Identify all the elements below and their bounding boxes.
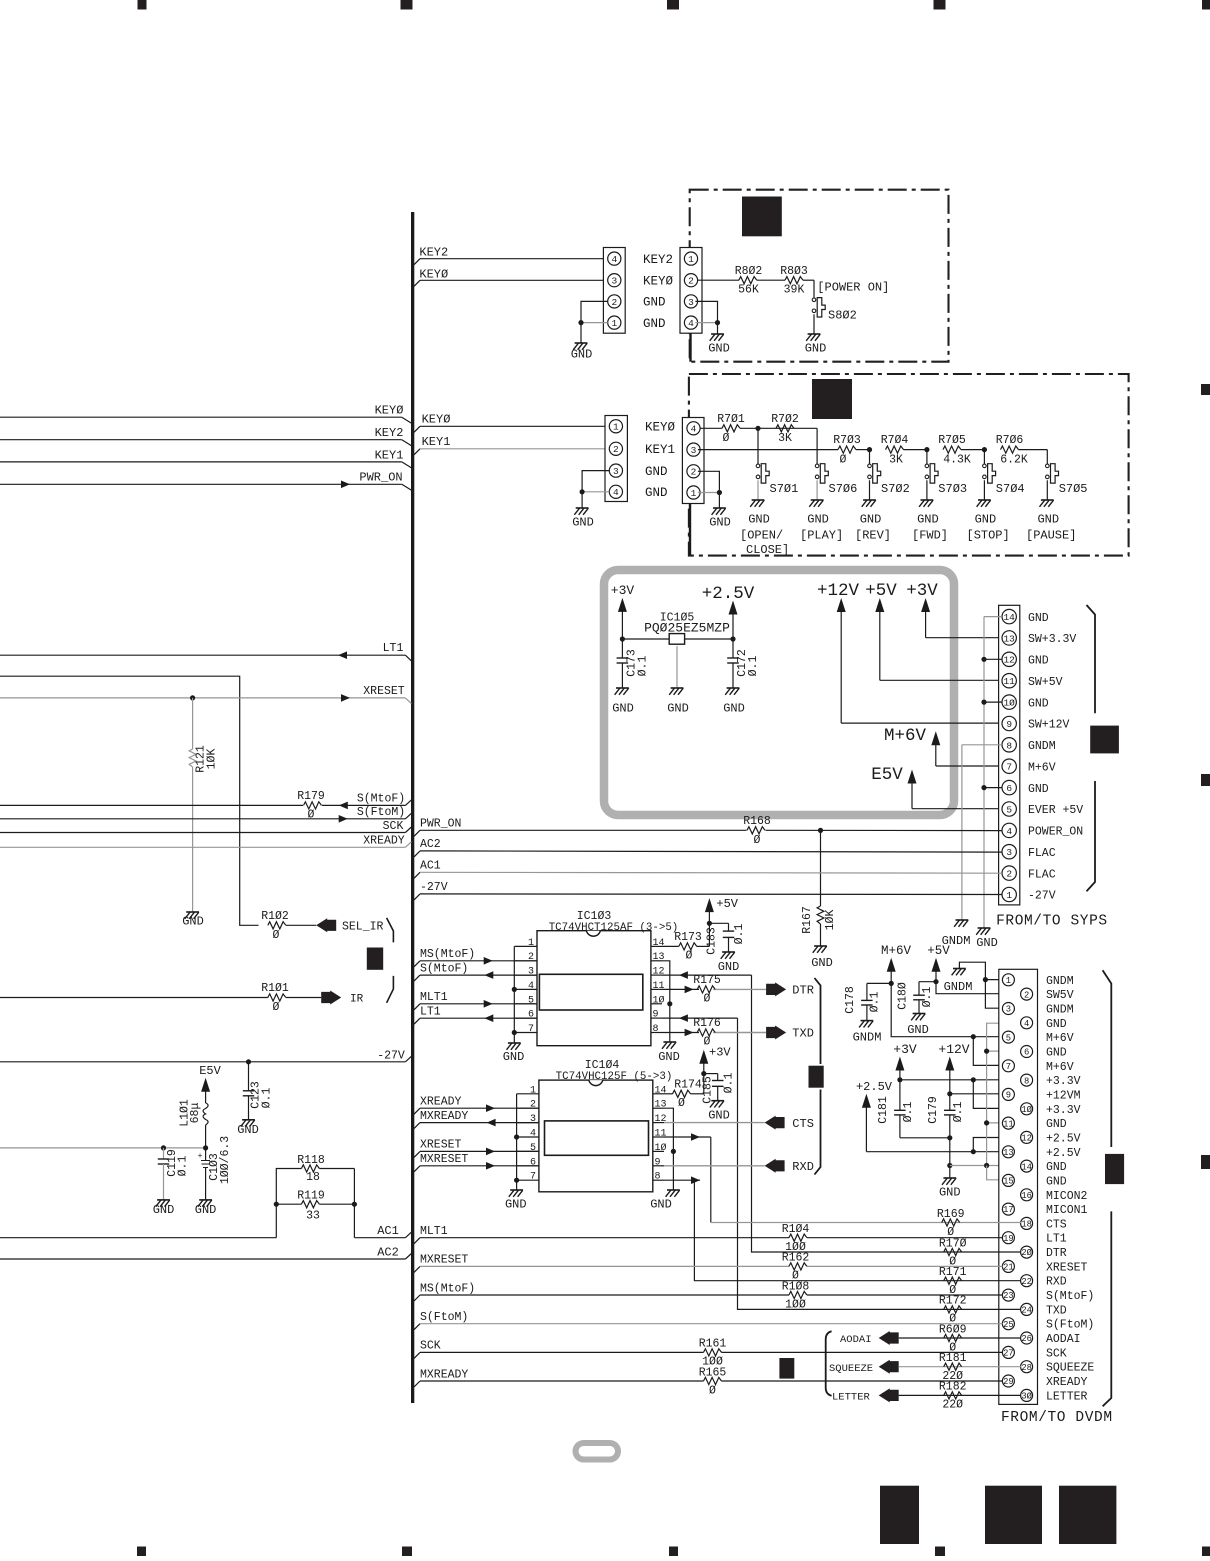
capacitor C178 0.1 xyxy=(844,983,891,1020)
capacitor C185 0.1 xyxy=(701,1073,735,1104)
svg-text:KEY1: KEY1 xyxy=(645,443,675,457)
svg-text:R7Ø2: R7Ø2 xyxy=(771,413,799,426)
svg-text:5: 5 xyxy=(530,1143,536,1154)
svg-text:XREADY: XREADY xyxy=(363,835,405,848)
wire DVDM GND rail (pins 4,6,11,14,15) xyxy=(950,1023,1021,1180)
net SEL_IR xyxy=(316,918,383,933)
svg-text:+3.3V: +3.3V xyxy=(1046,1075,1081,1088)
wire PWR_ON to R167 xyxy=(820,830,822,906)
svg-text:R168: R168 xyxy=(743,815,771,828)
power rail +3V (DVDM) xyxy=(893,1042,1021,1108)
wire SYPS GND bus (pins 14,12,10,6) xyxy=(981,617,1002,928)
svg-text:+3V: +3V xyxy=(611,583,635,598)
net MLT1 to IC103.5 xyxy=(414,991,537,1010)
switch S703 xyxy=(925,464,967,496)
svg-text:CLOSE]: CLOSE] xyxy=(746,543,789,557)
svg-text:9: 9 xyxy=(1006,1091,1011,1101)
svg-text:S(FtoM): S(FtoM) xyxy=(357,806,405,819)
wire IC103 pins 1,4,7 ground rail xyxy=(512,946,517,1043)
wire CN702 pin1 column to panel border xyxy=(689,504,691,556)
wire CN802 pin3/pin4 to ground xyxy=(695,301,720,334)
svg-text:GND: GND xyxy=(1046,1047,1067,1060)
svg-text:[PAUSE]: [PAUSE] xyxy=(1026,529,1076,543)
svg-text:8: 8 xyxy=(1024,1076,1029,1086)
wire IC104.11 to R169 line xyxy=(664,1133,934,1222)
wire main bus xyxy=(411,212,414,1403)
svg-text:29: 29 xyxy=(1003,1377,1014,1387)
svg-text:FLAC: FLAC xyxy=(1028,847,1056,860)
IC103 pin 14 xyxy=(651,938,665,949)
net SCK (left edge) xyxy=(0,820,411,833)
svg-text:R118: R118 xyxy=(297,1154,325,1167)
svg-text:56K: 56K xyxy=(738,284,759,297)
resistor R165 0 xyxy=(699,1366,727,1397)
svg-text:S(MtoF): S(MtoF) xyxy=(420,962,468,975)
svg-text:DTR: DTR xyxy=(792,984,814,998)
svg-text:GND: GND xyxy=(572,516,594,530)
svg-text:GND: GND xyxy=(571,348,593,362)
svg-text:SCK: SCK xyxy=(420,1340,441,1353)
svg-text:6: 6 xyxy=(530,1157,536,1168)
IC104 pin 1 xyxy=(517,1085,539,1096)
svg-text:FROM/TO SYPS: FROM/TO SYPS xyxy=(996,914,1108,930)
svg-text:4.3K: 4.3K xyxy=(943,453,971,466)
power rail +3V to SW+3.3V xyxy=(906,581,1002,638)
IC104 pin 4 xyxy=(517,1129,539,1140)
net XREADY to IC104.2 xyxy=(414,1095,539,1114)
wire S705 to ground xyxy=(1046,480,1048,500)
svg-text:MLT1: MLT1 xyxy=(420,1225,448,1238)
svg-text:11: 11 xyxy=(1003,676,1015,687)
svg-text:15: 15 xyxy=(1003,1177,1014,1187)
svg-text:11: 11 xyxy=(653,981,665,992)
ground GND (IC103 right) xyxy=(658,1042,680,1064)
ground GND (R121) xyxy=(182,912,204,929)
black label box xyxy=(742,197,782,237)
svg-text:S(MtoF): S(MtoF) xyxy=(1046,1290,1094,1303)
ground GND (IC104 right) xyxy=(650,1190,680,1212)
svg-text:+12V: +12V xyxy=(817,581,860,601)
wire S702 to ground xyxy=(869,480,871,500)
svg-text:17: 17 xyxy=(1003,1205,1014,1215)
svg-text:7: 7 xyxy=(530,1172,536,1183)
svg-text:[POWER ON]: [POWER ON] xyxy=(817,281,889,295)
resistor R609 0 xyxy=(934,1323,1021,1354)
svg-text:14: 14 xyxy=(655,1085,667,1096)
net MLT1 to R104/pin19 xyxy=(414,1225,1003,1244)
wire KEY0 net in panel1 xyxy=(698,279,740,281)
svg-text:GND: GND xyxy=(503,1050,525,1064)
harness bracket (DVDM upper) xyxy=(1103,970,1112,1147)
svg-text:R165: R165 xyxy=(699,1366,727,1379)
connector CN802 (key unit side B) xyxy=(680,248,702,334)
IC103 pin 9 xyxy=(651,1010,662,1021)
svg-text:GND: GND xyxy=(917,513,939,527)
net MXREADY to IC104.3 xyxy=(414,1110,539,1129)
svg-text:S7Ø5: S7Ø5 xyxy=(1059,482,1088,496)
wire IC103 pins 13,10 ground rail xyxy=(662,961,672,1042)
svg-text:24: 24 xyxy=(1021,1306,1032,1316)
svg-text:Ø: Ø xyxy=(308,809,315,822)
net IR xyxy=(321,991,363,1006)
svg-text:8: 8 xyxy=(653,1024,659,1035)
svg-text:GND: GND xyxy=(708,342,730,356)
svg-text:Ø: Ø xyxy=(709,1384,716,1397)
svg-text:13: 13 xyxy=(1003,633,1015,644)
svg-text:+3V: +3V xyxy=(709,1046,731,1060)
net LT1 to IC103.6 xyxy=(414,1005,537,1024)
svg-text:5: 5 xyxy=(1006,804,1012,815)
svg-text:R172: R172 xyxy=(939,1295,967,1308)
resistor R121 10K xyxy=(189,698,218,912)
net KEY2 (left edge) xyxy=(0,426,412,446)
svg-text:SW5V: SW5V xyxy=(1046,989,1074,1002)
svg-text:S7Ø4: S7Ø4 xyxy=(996,482,1025,496)
svg-text:Ø.1: Ø.1 xyxy=(747,656,760,677)
svg-text:S8Ø2: S8Ø2 xyxy=(828,309,857,323)
svg-text:GND: GND xyxy=(1046,1175,1067,1188)
svg-text:1: 1 xyxy=(613,422,619,433)
svg-text:R7Ø1: R7Ø1 xyxy=(717,413,745,426)
svg-text:8: 8 xyxy=(655,1172,661,1183)
svg-text:GND: GND xyxy=(1046,1161,1067,1174)
svg-text:M+6V: M+6V xyxy=(1046,1032,1074,1045)
svg-text:1: 1 xyxy=(530,1085,536,1096)
svg-text:R174: R174 xyxy=(674,1079,702,1092)
svg-text:GND: GND xyxy=(723,702,745,716)
net AC2 (left edge) xyxy=(0,1246,411,1260)
svg-text:3: 3 xyxy=(1006,847,1012,858)
black label box xyxy=(1090,726,1119,754)
capacitor C123 0.1 xyxy=(243,1062,274,1120)
svg-text:28: 28 xyxy=(1021,1363,1032,1373)
black label box xyxy=(779,1358,794,1379)
power rail +2.5V (IC105 output) xyxy=(702,584,755,642)
svg-text:GND: GND xyxy=(645,465,668,479)
svg-text:1: 1 xyxy=(611,318,617,329)
power rail E5V to EVER+5V xyxy=(871,765,1002,809)
svg-text:SW+3.3V: SW+3.3V xyxy=(1028,633,1076,646)
svg-text:+12VM: +12VM xyxy=(1046,1089,1081,1102)
wire GNDM to DVDM pins 1,3 xyxy=(959,962,1002,1008)
svg-text:KEY1: KEY1 xyxy=(422,435,451,449)
svg-text:+12V: +12V xyxy=(938,1042,969,1057)
svg-text:3: 3 xyxy=(530,1114,536,1125)
svg-text:12: 12 xyxy=(1021,1134,1032,1144)
net MS(MtoF) to R108/pin23 xyxy=(414,1282,1003,1301)
svg-text:Ø.1: Ø.1 xyxy=(921,987,934,1008)
svg-text:Ø.1: Ø.1 xyxy=(733,924,746,945)
connector FROM/TO DVDM xyxy=(999,969,1095,1404)
svg-text:1Ø: 1Ø xyxy=(1003,698,1015,709)
svg-text:E5V: E5V xyxy=(199,1064,221,1078)
power rail +12V (DVDM) xyxy=(938,1042,1002,1096)
svg-text:R1Ø4: R1Ø4 xyxy=(782,1223,810,1236)
net AC1 (right of bus) xyxy=(414,860,1002,879)
wire IC103.8 TXD out xyxy=(662,1032,699,1034)
svg-text:2: 2 xyxy=(528,952,534,963)
wire CN701 pin3/pin4 to ground xyxy=(580,471,610,508)
IC104 pin 11 xyxy=(653,1129,667,1140)
svg-text:M+6V: M+6V xyxy=(884,726,927,746)
net PWR_ON (right of bus) xyxy=(414,818,747,837)
resistor R172 0 (TXD line) xyxy=(934,1295,1021,1326)
svg-text:2Ø: 2Ø xyxy=(1021,1248,1032,1258)
wire IC104.8 to RXD pin line xyxy=(664,1176,934,1280)
svg-text:25: 25 xyxy=(1003,1320,1014,1330)
svg-text:-27V: -27V xyxy=(420,881,448,894)
svg-text:GND: GND xyxy=(612,702,634,716)
inductor L101 68u xyxy=(179,1099,209,1148)
svg-text:+2.5V: +2.5V xyxy=(1046,1132,1081,1145)
svg-text:S7Ø3: S7Ø3 xyxy=(938,482,967,496)
svg-text:AODAI: AODAI xyxy=(1046,1333,1081,1346)
svg-text:26: 26 xyxy=(1021,1334,1032,1344)
power rail +3V (IC105 input) xyxy=(611,583,635,642)
svg-text:2: 2 xyxy=(1024,990,1029,1000)
svg-text:XREADY: XREADY xyxy=(1046,1376,1088,1389)
wire S802 to ground xyxy=(813,314,815,334)
power rail +12V to SW+12V xyxy=(817,581,1002,723)
svg-text:GND: GND xyxy=(645,486,668,500)
svg-text:FLAC: FLAC xyxy=(1028,868,1056,881)
net -27V (right of bus) xyxy=(414,881,1002,900)
power rail +3V (IC104) xyxy=(699,1046,731,1074)
svg-text:SEL_IR: SEL_IR xyxy=(342,921,384,934)
svg-text:4: 4 xyxy=(1024,1019,1029,1029)
resistor R169 0 (CTS line) xyxy=(934,1208,1021,1239)
svg-text:22: 22 xyxy=(1021,1277,1032,1287)
svg-text:11: 11 xyxy=(1003,1119,1014,1129)
svg-text:GND: GND xyxy=(1028,697,1049,710)
wire S706 to ground xyxy=(816,480,818,500)
svg-text:GND: GND xyxy=(975,513,997,527)
svg-text:1: 1 xyxy=(688,254,694,265)
svg-text:SW+5V: SW+5V xyxy=(1028,676,1063,689)
ground GND (SYPS) xyxy=(976,928,998,950)
harness bracket (DTR/TXD/CTS/RXD lower) xyxy=(815,1090,821,1175)
svg-text:4: 4 xyxy=(1006,826,1012,837)
svg-text:R181: R181 xyxy=(939,1352,967,1365)
svg-text:GND: GND xyxy=(976,936,998,950)
svg-text:R8Ø3: R8Ø3 xyxy=(780,265,808,278)
svg-text:R162: R162 xyxy=(782,1252,810,1265)
net KEY0 xyxy=(414,267,608,286)
svg-text:SCK: SCK xyxy=(383,820,404,833)
power rail +5V to SW+5V xyxy=(865,581,1002,680)
wire CN702 pin2/pin1 to ground xyxy=(698,471,722,508)
ground GND (IC104 left) xyxy=(505,1190,527,1212)
svg-text:9: 9 xyxy=(1006,719,1012,730)
wire KEY0 row (R701 row) xyxy=(700,427,722,429)
power rail E5V xyxy=(199,1064,221,1103)
resistor R181 220 xyxy=(934,1352,1021,1383)
IC103 pin 6 xyxy=(514,1010,537,1021)
svg-text:3: 3 xyxy=(1006,1005,1011,1015)
switch S702 xyxy=(868,464,910,496)
svg-text:SQUEEZE: SQUEEZE xyxy=(829,1363,873,1375)
net XRESET to IC104.5 xyxy=(414,1139,539,1158)
svg-text:R119: R119 xyxy=(297,1189,325,1202)
svg-text:GND: GND xyxy=(805,342,827,356)
wire IC104.12 CTS line xyxy=(664,1122,765,1124)
svg-text:S(FtoM): S(FtoM) xyxy=(420,1311,468,1324)
svg-text:XRESET: XRESET xyxy=(363,685,405,698)
svg-text:S7Ø2: S7Ø2 xyxy=(881,482,910,496)
svg-text:R8Ø2: R8Ø2 xyxy=(735,265,763,278)
net S(MtoF) (left edge) xyxy=(0,792,411,809)
power rail M+6V (DVDM) xyxy=(881,944,1002,1065)
svg-text:R161: R161 xyxy=(699,1338,727,1351)
IC103 pin 7 xyxy=(514,1024,537,1035)
svg-text:R176: R176 xyxy=(693,1017,721,1030)
svg-text:1ØK: 1ØK xyxy=(824,910,837,931)
IC103 pin 4 xyxy=(514,981,537,992)
svg-text:14: 14 xyxy=(653,938,665,949)
svg-text:+5V: +5V xyxy=(865,581,897,601)
wire IC103.11 DTR out xyxy=(662,988,699,990)
power rail +5V (DVDM) xyxy=(927,944,1021,994)
svg-text:R1Ø8: R1Ø8 xyxy=(782,1280,810,1293)
net CTS xyxy=(765,1116,814,1131)
svg-text:1: 1 xyxy=(1006,976,1011,986)
svg-text:KEY2: KEY2 xyxy=(419,246,448,260)
IC104 pin 12 xyxy=(653,1114,667,1125)
ground GND (S706) xyxy=(807,500,829,527)
wire SYPS GNDM (pin 8) xyxy=(962,745,1002,920)
ground GND (S704) xyxy=(975,500,997,527)
svg-text:XREADY: XREADY xyxy=(420,1095,462,1108)
svg-text:RXD: RXD xyxy=(1046,1276,1067,1289)
svg-text:SQUEEZE: SQUEEZE xyxy=(1046,1362,1094,1375)
svg-text:[PLAY]: [PLAY] xyxy=(800,529,843,543)
panel boundary (power key unit) xyxy=(690,190,949,362)
connector CN701 (function key side A) xyxy=(605,416,676,502)
svg-text:GND: GND xyxy=(153,1203,175,1217)
wire IC104 pins 13,10 ground rail xyxy=(664,1108,676,1190)
resistor R167 10K xyxy=(801,906,837,946)
net AODAI xyxy=(840,1331,934,1346)
black label box xyxy=(880,1486,919,1544)
net SQUEEZE xyxy=(829,1360,934,1375)
harness bracket (DVDM lower) xyxy=(1103,1211,1112,1406)
resistor R108 100 xyxy=(782,1280,810,1311)
harness bracket (SYPS lower) xyxy=(1087,781,1096,891)
resistor R102 0 xyxy=(261,910,316,942)
svg-text:R7Ø6: R7Ø6 xyxy=(996,434,1024,447)
resistor R176 0 xyxy=(693,1017,721,1049)
svg-text:GND: GND xyxy=(708,1109,730,1123)
svg-text:FROM/TO DVDM: FROM/TO DVDM xyxy=(1001,1410,1113,1426)
svg-text:2: 2 xyxy=(691,467,697,478)
net S(FtoM) (left edge) xyxy=(0,806,411,823)
resistor R182 220 xyxy=(934,1381,1021,1412)
svg-text:9: 9 xyxy=(655,1157,661,1168)
net KEY1 (left edge) xyxy=(0,448,412,468)
svg-text:13: 13 xyxy=(1003,1148,1014,1158)
wire CN802 pin1 column to panel border xyxy=(689,333,691,362)
net DTR xyxy=(766,982,814,997)
svg-text:PQØ25EZ5MZP: PQØ25EZ5MZP xyxy=(644,621,730,636)
svg-text:Ø: Ø xyxy=(678,1097,685,1110)
svg-text:GNDM: GNDM xyxy=(853,1031,882,1045)
svg-text:4: 4 xyxy=(528,981,534,992)
svg-text:3: 3 xyxy=(611,276,617,287)
svg-text:IR: IR xyxy=(350,994,364,1006)
IC103 pin 2 xyxy=(514,952,537,963)
svg-text:GND: GND xyxy=(1046,1118,1067,1131)
svg-text:GNDM: GNDM xyxy=(1046,975,1074,988)
svg-text:Ø.1: Ø.1 xyxy=(261,1088,274,1109)
svg-text:27: 27 xyxy=(1003,1349,1014,1359)
svg-text:6: 6 xyxy=(528,1010,534,1021)
svg-text:GNDM: GNDM xyxy=(944,980,973,994)
svg-text:R6Ø9: R6Ø9 xyxy=(939,1323,967,1336)
connector FROM/TO SYPS xyxy=(999,605,1084,905)
svg-text:S(FtoM): S(FtoM) xyxy=(1046,1319,1094,1332)
svg-text:4: 4 xyxy=(691,424,697,435)
svg-text:22Ø: 22Ø xyxy=(942,1399,963,1412)
svg-text:DTR: DTR xyxy=(1046,1247,1067,1260)
ground GNDM (SYPS) xyxy=(942,920,971,948)
IC104 pin 9 xyxy=(653,1157,664,1168)
svg-text:R182: R182 xyxy=(939,1381,967,1394)
IC103 pin 8 xyxy=(651,1024,662,1035)
IC104 pin 14 xyxy=(653,1085,667,1096)
ground GNDM (C178) xyxy=(853,1021,882,1045)
svg-text:Ø.1: Ø.1 xyxy=(952,1102,965,1123)
svg-text:KEY1: KEY1 xyxy=(375,448,404,462)
svg-text:33: 33 xyxy=(306,1210,320,1223)
net MS(MtoF) to IC103.2 xyxy=(414,948,537,967)
ground GND (C123) xyxy=(237,1120,259,1137)
svg-text:GND: GND xyxy=(811,956,833,970)
IC103 pin 1 xyxy=(514,938,537,949)
resistor R171 0 (RXD line) xyxy=(934,1266,1021,1297)
svg-text:1ØK: 1ØK xyxy=(206,749,219,770)
svg-text:3: 3 xyxy=(688,297,694,308)
net LT1 (left edge) xyxy=(0,642,411,661)
black label box xyxy=(812,379,852,419)
net LETTER xyxy=(832,1388,934,1403)
svg-text:R171: R171 xyxy=(939,1266,967,1279)
svg-text:LT1: LT1 xyxy=(383,642,404,655)
IC103 pin 13 xyxy=(651,952,665,963)
capacitor C119 0.1 xyxy=(158,1148,190,1200)
svg-text:4: 4 xyxy=(611,254,617,265)
buffer IC104 TC74VHC125F (5->3) xyxy=(539,1059,672,1192)
svg-text:XRESET: XRESET xyxy=(1046,1261,1088,1274)
svg-text:KEYØ: KEYØ xyxy=(375,404,404,418)
svg-text:19: 19 xyxy=(1003,1234,1014,1244)
svg-text:[STOP]: [STOP] xyxy=(967,529,1010,543)
buffer IC103 TC74VHCT125AF (3->5) xyxy=(537,910,678,1046)
svg-text:GND: GND xyxy=(1037,513,1059,527)
harness bracket (AODAI group) xyxy=(826,1331,832,1395)
net TXD xyxy=(766,1026,814,1041)
resistor R118 18 xyxy=(297,1154,325,1184)
IC104 pin 10 xyxy=(653,1142,667,1154)
svg-text:3: 3 xyxy=(691,445,697,456)
IC104 pin 3 xyxy=(517,1114,539,1125)
IC103 pin 5 xyxy=(514,995,537,1006)
svg-text:Ø.1: Ø.1 xyxy=(177,1156,190,1177)
wire CN-A pin2/pin1 to ground xyxy=(578,301,607,343)
regulator IC105 PQ025EZ5MZP xyxy=(622,612,733,689)
svg-text:GND: GND xyxy=(643,296,666,310)
svg-text:LETTER: LETTER xyxy=(832,1392,871,1404)
connector CN702 (function key side B) xyxy=(682,418,704,504)
